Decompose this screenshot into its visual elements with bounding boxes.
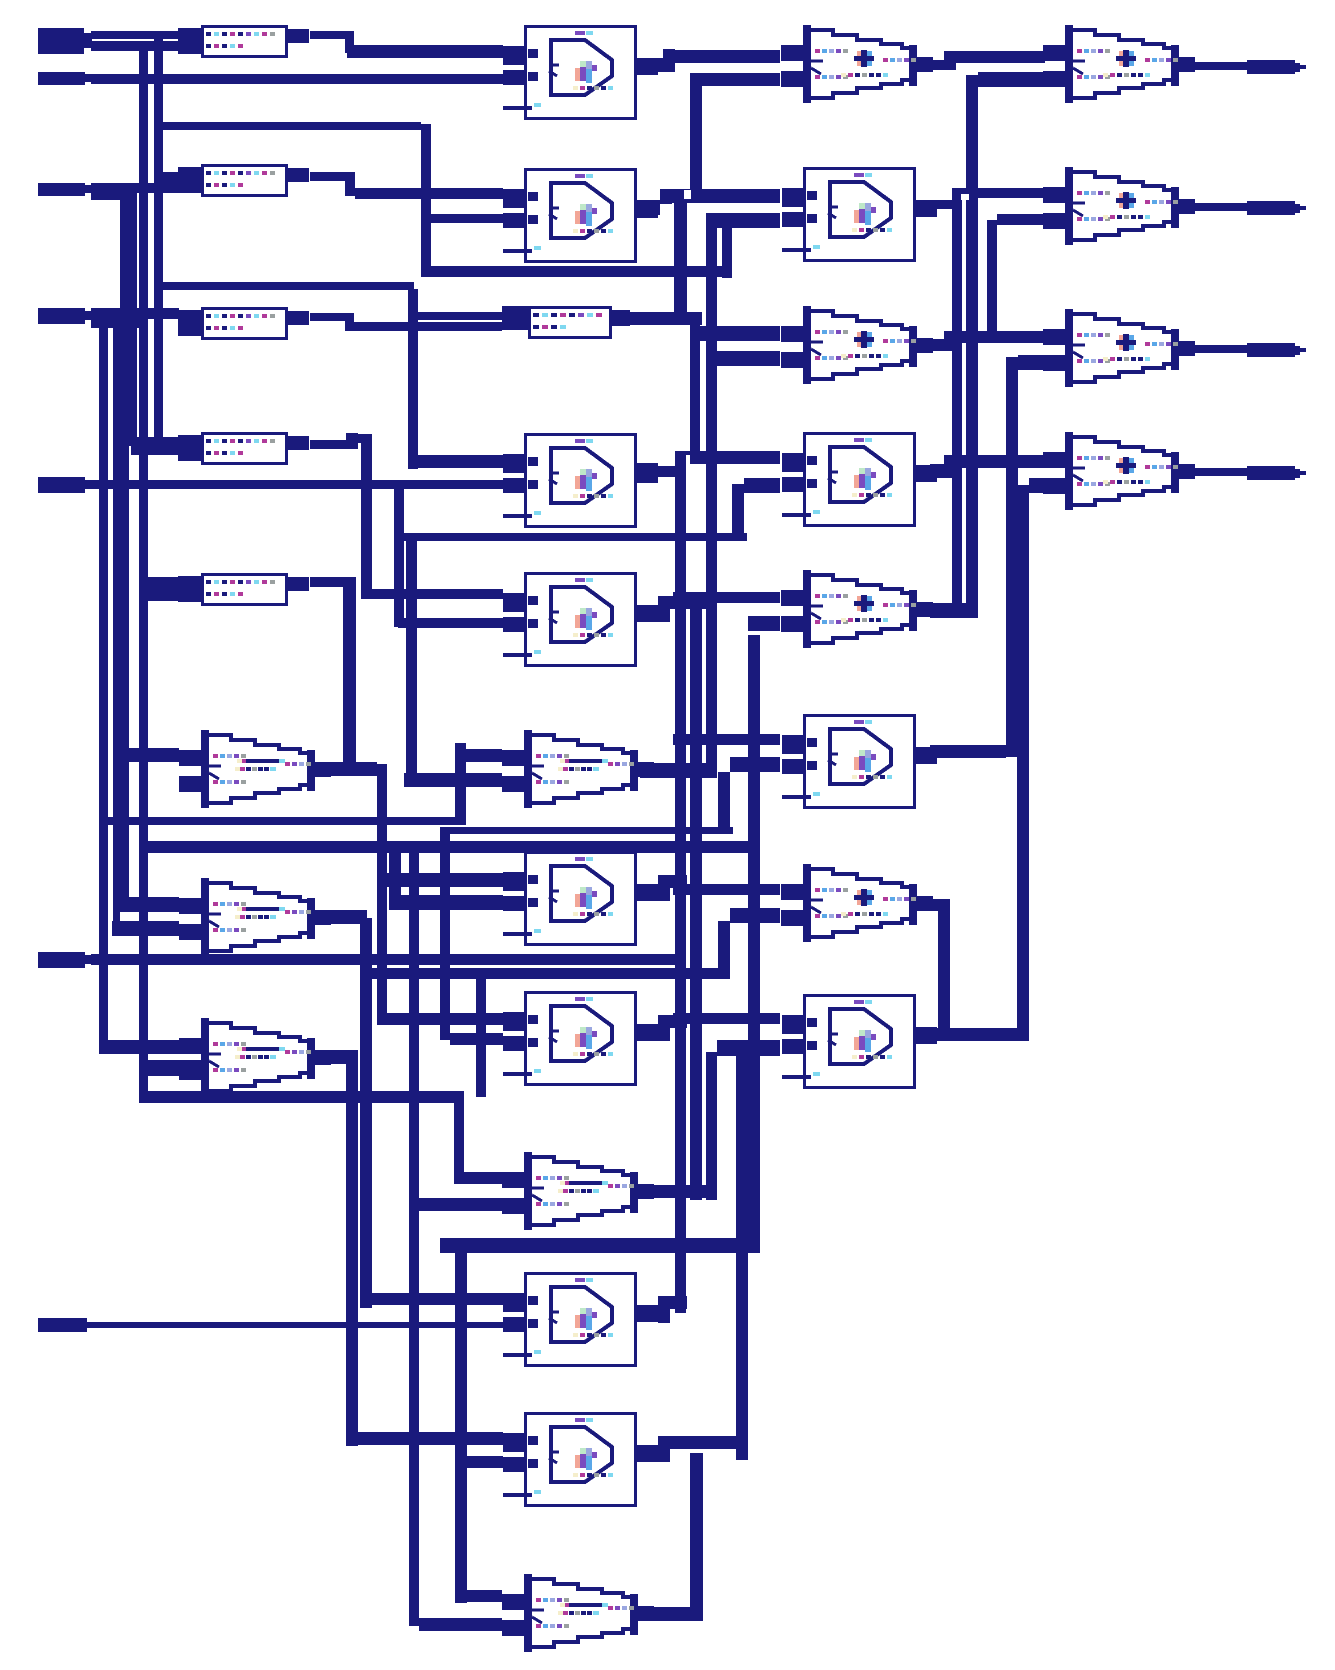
wire V_a riser to AddR1 b [690, 73, 780, 203]
wire In1 bus bar A [91, 31, 178, 39]
wire long row LR (In1 net) [139, 1091, 464, 1103]
wire vertical F (H2 net) [408, 289, 418, 469]
wire AddR4 a bar [673, 884, 780, 895]
wire trunk V_b' upper [674, 196, 687, 313]
wire crossing notch near M5 a [686, 455, 690, 464]
wire K2 bar2 long [360, 968, 730, 979]
wire M5 a bar [675, 451, 780, 464]
wire riser Cast3 out [690, 1453, 703, 1621]
addsub AddR4 [781, 864, 933, 942]
wire AddR4 out descender [931, 899, 950, 1039]
wire row1a long horizontal [107, 817, 462, 825]
wire riser LR to Cast2 a [454, 1097, 464, 1177]
wire G5 out [310, 577, 343, 587]
wire col C2 to M8 b [717, 1040, 780, 1056]
wire column C to AddL1 a [120, 748, 179, 762]
wire riser row2 to MC6 b [389, 846, 503, 910]
mult M4 [503, 433, 658, 528]
wire U to MC7 b [450, 1033, 503, 1045]
wire H1 long horizontal [424, 266, 732, 277]
wire column U [440, 827, 450, 1040]
addsub AddRa [781, 306, 933, 384]
input port In6 [38, 952, 91, 968]
addsub AddL1 [179, 730, 331, 808]
wire lane P2 (In5/H net) [406, 534, 417, 781]
mult MC7 [503, 991, 658, 1086]
mult M2 [503, 168, 658, 263]
wire col E2 (AddR3 b riser + H_big) [748, 635, 760, 1253]
wire M3 out [933, 200, 960, 209]
wire lane K3 [409, 846, 419, 1626]
wire H3 from column E to riser G [158, 122, 421, 130]
wire vertical column B (In4 net) [113, 321, 120, 935]
wire H row (M4 net) [404, 533, 747, 541]
adder F2 [1043, 167, 1195, 245]
wire M3 b bar [706, 213, 780, 228]
wire AddR1 out to F1 a [931, 51, 1045, 70]
mult MC8 [503, 1272, 658, 1367]
mult MC9 [503, 1412, 658, 1507]
wire W2 vertical [1017, 485, 1029, 1041]
wire column S [455, 743, 466, 825]
input port In5 [38, 477, 91, 493]
wire vertical column E (In1 net) [154, 31, 163, 452]
wire G2 to M2 a [310, 172, 503, 199]
wire W2 to F4 b [1029, 478, 1045, 493]
wire AddL2 out [316, 910, 367, 924]
gain G2 [178, 164, 309, 197]
addsub AddR3 [781, 570, 933, 648]
addsub AddL2 [179, 878, 331, 956]
wire H_a to F2 a [952, 188, 1045, 198]
wire V2 vertical (In-net riser) [966, 75, 978, 615]
wire V2 to F1 b [978, 72, 1045, 87]
wire M7 out to W1 [930, 745, 1006, 758]
addsub Cast2 [502, 1152, 654, 1230]
wire column E to gain G4 bar B [131, 446, 179, 455]
wire MC8 out to trunk [658, 1296, 687, 1323]
wire AddR3 b bar [748, 616, 780, 631]
wire AddR3 a bar [673, 592, 780, 603]
wire crossing notch near M2 out [684, 190, 691, 199]
wire GM out to trunk [630, 312, 702, 325]
wire Cast3 a bar [455, 1590, 502, 1602]
wire column D to gain G5 [139, 577, 179, 601]
wire AddR3 out [930, 603, 978, 618]
wire F to gain GM bar [408, 312, 502, 320]
wire V_m to AddRa a [690, 326, 780, 341]
wire lane K1 (AddL3 net) [346, 1057, 358, 1446]
wire riser H1 to M3 b [722, 222, 732, 278]
wire Cast1 out [640, 763, 717, 778]
wire M7 a bar [673, 734, 780, 745]
gain G1 [178, 25, 309, 58]
wire AddL1 out [316, 762, 387, 1025]
wire In6 row to trunk [91, 954, 675, 965]
addsub AddL3 [179, 1018, 331, 1096]
gain GM (middle) [502, 306, 630, 339]
wire K1 to MC9 a [346, 1432, 503, 1445]
wire vertical column A (In4 net) [99, 322, 108, 1053]
adder F4 [1043, 432, 1195, 510]
wire riser H_big to Cast3 a [455, 1253, 467, 1603]
input port In1 [38, 28, 92, 54]
wire M8 out to W2 [930, 1028, 1017, 1041]
wire K3 to Cast2 b [419, 1198, 502, 1211]
addsub Cast1 [502, 730, 654, 808]
wire column B to AddL2 b [112, 921, 179, 936]
wire In4 lower tap [91, 319, 148, 328]
wire W1 to F3 b [1018, 355, 1045, 370]
output port Out4 [1192, 466, 1306, 480]
wire S to Cast1 a [464, 749, 502, 762]
wire M2 out to M3 a [637, 189, 780, 215]
gain G5 [178, 573, 309, 606]
output port Out3 [1192, 343, 1306, 357]
input port In2 [38, 72, 91, 85]
mult M3 [782, 167, 937, 262]
wire MC5 out [658, 596, 708, 622]
wire column C to AddL2 a [120, 897, 179, 912]
wire K3 to Cast3 b [419, 1618, 502, 1631]
wire vertical column V4b (In3 net) [129, 192, 137, 445]
wire In4 row to gain G3 [91, 308, 179, 319]
wire Cast2 out [640, 1185, 706, 1198]
wire In5 desc to MC5 b [394, 484, 503, 628]
wire In7 row to mult MC8 b [87, 1322, 503, 1328]
wire crossing notch near F2 a [961, 194, 969, 200]
wire column E to gain G2 [154, 172, 179, 183]
wire col D2 vertical [736, 1048, 748, 1460]
input port In3 [38, 183, 91, 196]
wire riser T from bar2 to LR [476, 968, 486, 1097]
wire K2 to MC8 a [360, 1293, 503, 1305]
adder F1 [1043, 25, 1195, 103]
wire MC9 b bar [465, 1456, 503, 1468]
gain G3 [178, 307, 309, 340]
wire col B2 down [690, 605, 702, 1200]
output port Out1 [1192, 60, 1306, 74]
wire G1 to M1 a [310, 31, 503, 58]
gain G4 [178, 432, 309, 465]
wire riser G vertical [421, 124, 431, 277]
wire In1 bus bar B [91, 41, 178, 51]
wire V1 vertical [952, 188, 962, 612]
wire V_m vertical [690, 317, 700, 453]
wire In5 row to mult M4 b [91, 480, 503, 489]
wire Cast3 out [640, 1607, 690, 1621]
wire column V4b to gain G4 bar A [129, 437, 179, 446]
wire F2 b riser [987, 214, 1045, 338]
input port In7 [38, 1318, 92, 1332]
mult M5 [782, 432, 937, 527]
wire MC7 out [658, 1015, 687, 1041]
wire AddL1 desc to MC6 a [387, 873, 503, 887]
wire In2 to mult M1 b [91, 74, 503, 84]
mult M1 [503, 25, 658, 120]
wire V_g to AddRa b [717, 351, 780, 366]
wire W1 vertical [1006, 357, 1018, 757]
input port In4 [38, 308, 91, 324]
wire trunk V_b' lower [675, 451, 686, 1313]
wire AddRa out to F3 a [931, 331, 1045, 351]
wire vertical column C (In3 net) [120, 192, 129, 912]
wire column D to AddL3 b [139, 1060, 202, 1076]
wire MC9 out [658, 1436, 736, 1462]
wire row2 long horizontal [139, 841, 760, 853]
wire column A to AddL3 a [99, 1040, 179, 1054]
wire G4 out to MC5 a [310, 433, 503, 599]
wire lane K2 (AddL2 net) [360, 918, 372, 1308]
wire riser to M5 b [732, 478, 780, 541]
mult MC5 [503, 572, 658, 667]
wire H2 from column E [158, 282, 414, 290]
wire riser bar2 to AddR4 b [718, 908, 780, 979]
mult MC6 [503, 851, 658, 946]
addsub Cast3 [502, 1574, 654, 1652]
wire MC6 out [658, 875, 687, 901]
wire lane P1 (G5 net) [343, 577, 356, 772]
mult M7 [782, 714, 937, 809]
wire AddL3 out [316, 1050, 358, 1064]
wire In3 lower tap [91, 192, 127, 200]
wire riser row1 to M7 b [718, 757, 780, 834]
wire M5 out to F4 a [930, 455, 1045, 478]
wire col C2 down [706, 1052, 717, 1200]
wire P2 to Cast1 b [404, 773, 502, 787]
mult M8 [782, 994, 937, 1089]
output port Out2 [1192, 201, 1306, 215]
wire riser G to mult M2 b [431, 214, 503, 223]
wire Cast2 a bar [454, 1172, 503, 1184]
wire AddL1 desc to MC7 a [387, 1013, 503, 1025]
wire trunk V_g [706, 213, 717, 778]
wire M4 out [637, 463, 675, 480]
wire G3 to gain GM [310, 313, 502, 331]
wire row1b long horizontal [444, 827, 733, 834]
wire M8 a bar [673, 1013, 780, 1024]
wire H_big long horizontal [440, 1238, 755, 1253]
wire vertical column D (In1 net) [139, 41, 148, 1098]
wire F to mult M4 a [408, 455, 503, 468]
wire In3 row to gain G2 [91, 183, 179, 193]
addsub AddR1 [781, 25, 933, 103]
adder F3 [1043, 309, 1195, 387]
wire M1 out to AddR1 a [637, 49, 780, 72]
